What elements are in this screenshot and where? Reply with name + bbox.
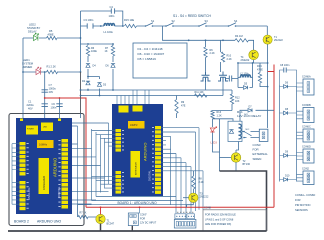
diode D6 (111, 64, 115, 68)
transistor Q1 (201, 72, 211, 82)
reed switch S3 (198, 25, 200, 27)
wire CON7 feed (138, 207, 139, 213)
svg-text:FOR: FOR (253, 147, 259, 151)
diode D6 (284, 85, 288, 89)
svg-text:ATMEGA328: ATMEGA328 (43, 175, 46, 190)
svg-text:STAND BY: STAND BY (27, 26, 40, 30)
resistor R4 (235, 39, 249, 42)
svg-text:12V 1C/O RELAY: 12V 1C/O RELAY (237, 114, 261, 118)
wire main left vertical lower (80, 72, 82, 114)
svg-text:BOARD 2: BOARD 2 (14, 219, 29, 223)
wire board2 left stubs (12, 144, 20, 205)
resistor R11 (195, 94, 208, 97)
wire CON2 pins (297, 174, 304, 181)
svg-text:S3: S3 (205, 19, 209, 23)
wire nest between boards (72, 123, 116, 205)
relay diode (229, 130, 233, 134)
svg-text:SYSTEM: SYSTEM (22, 62, 34, 66)
node N (80, 89, 82, 91)
capacitor C7 (42, 90, 48, 92)
svg-text:2.2K: 2.2K (227, 58, 232, 61)
connector CON7 box (128, 213, 138, 226)
relay contacts (242, 132, 259, 138)
wire main top (81, 25, 268, 27)
wire T1emitter down (267, 87, 269, 128)
wire R9 stems (176, 96, 178, 119)
transistor T5 (96, 214, 105, 223)
node O (80, 95, 82, 97)
diode D7 flyback (248, 109, 252, 113)
node D (44, 71, 46, 73)
wire L2 row (238, 63, 253, 88)
arduino board2 body (16, 118, 72, 214)
svg-text:CON6C: CON6C (302, 126, 311, 129)
connector CON6C (303, 129, 314, 142)
svg-text:D6 - D10 = 1N4007: D6 - D10 = 1N4007 (138, 52, 165, 56)
wire D5 row (238, 87, 253, 89)
transistor T2 (231, 153, 241, 163)
svg-text:BC547: BC547 (107, 223, 115, 226)
inductor L1 (104, 24, 115, 26)
svg-text:R4 1M: R4 1M (235, 34, 243, 38)
inductor L2 (241, 75, 251, 78)
svg-text:40V: 40V (49, 90, 54, 94)
resistor R13 (211, 111, 214, 119)
diode D4 (86, 64, 90, 68)
diode D8 (284, 111, 288, 115)
wire y40 branch (163, 26, 254, 50)
relay RL1 box (228, 121, 242, 141)
wire R10 stem (220, 40, 222, 72)
wire T3 emitter (187, 202, 194, 207)
wire LED2 branch (23, 37, 81, 39)
svg-text:R5: R5 (49, 29, 53, 33)
resistor R3 (111, 46, 114, 57)
resistor R15 (125, 24, 137, 27)
node M (237, 62, 239, 64)
node H (122, 25, 124, 27)
wire D6 stems (112, 44, 114, 90)
red wire +12V left (45, 98, 86, 207)
LED3 (210, 127, 217, 132)
svg-text:R7 1K: R7 1K (80, 212, 87, 215)
wire Q1 drain down (205, 82, 207, 90)
connector CON8 header (174, 219, 196, 228)
node F (59, 97, 61, 99)
svg-text:D1 - D4 = 1N4148: D1 - D4 = 1N4148 (138, 47, 163, 51)
red wire bottom (86, 206, 274, 208)
connector CON6D (303, 149, 314, 163)
node A (80, 37, 82, 39)
svg-text:CON6A~ CON6D: CON6A~ CON6D (295, 193, 315, 197)
svg-text:C8 100n: C8 100n (280, 64, 290, 67)
svg-text:DIGITAL: DIGITAL (148, 170, 152, 181)
svg-text:S1 - S4 = REED SWITCH: S1 - S4 = REED SWITCH (173, 14, 211, 18)
svg-text:LED1: LED1 (23, 58, 30, 62)
connector CON2 (303, 171, 314, 185)
node J (188, 39, 190, 41)
diode D2 (86, 81, 90, 85)
svg-text:100n: 100n (51, 106, 57, 110)
wire main left vertical (80, 11, 82, 72)
relay coil (239, 124, 242, 139)
capacitor C5 (229, 76, 231, 82)
arduino board2 details (26, 126, 38, 135)
resistor R14 (258, 73, 261, 84)
svg-text:S2: S2 (172, 19, 176, 23)
svg-text:R11 10K: R11 10K (195, 91, 205, 94)
svg-text:2N2222: 2N2222 (200, 196, 209, 199)
svg-text:R1 2.2K: R1 2.2K (47, 65, 57, 69)
node P (267, 86, 269, 88)
svg-text:CON7: CON7 (140, 214, 147, 217)
connector CON6B (303, 108, 314, 123)
wire left vertical (22, 38, 24, 114)
reed switch S4 (228, 25, 230, 27)
resistor R5 (47, 36, 58, 39)
relay contact nodes (243, 131, 245, 133)
wire relay top (213, 119, 234, 121)
wire C4 branch (81, 11, 123, 26)
wire RD network top (81, 43, 114, 45)
diode D5 (244, 86, 248, 90)
LED2 stand-by (34, 33, 39, 41)
diode D3 (97, 83, 101, 87)
ground bus right (220, 171, 267, 231)
wire D10 row (280, 179, 297, 181)
node B (22, 71, 24, 73)
wire R6 stem (205, 40, 207, 72)
wire nest right of board1 (161, 128, 203, 213)
svg-text:FOR: FOR (140, 218, 145, 221)
svg-text:FOR: FOR (295, 198, 301, 202)
svg-text:16MHz: 16MHz (130, 124, 138, 127)
wire C6 vertical (59, 98, 61, 114)
capacitor C1 (42, 104, 48, 107)
wire D9 row (280, 155, 297, 157)
svg-text:DIGITAL: DIGITAL (57, 186, 61, 198)
svg-text:CON6B: CON6B (302, 104, 311, 107)
resistor R1 (47, 70, 58, 73)
connector CON7 pins (130, 215, 133, 218)
svg-text:FOR RADIO 32M MODULE: FOR RADIO 32M MODULE (205, 214, 236, 217)
wire T2 emitter (235, 162, 237, 171)
svg-text:D10: D10 (285, 174, 290, 177)
radio note box (203, 210, 267, 231)
wire relay supply (240, 110, 274, 121)
wire LED3 down (213, 133, 220, 153)
connector CON6A (303, 79, 314, 95)
resistor R7 (78, 215, 88, 218)
capacitor C8 (284, 68, 286, 73)
svg-text:CON6D: CON6D (302, 146, 311, 149)
svg-text:S4: S4 (234, 19, 238, 23)
wire R12 stem (231, 90, 233, 94)
wire T5 collector (100, 207, 102, 214)
wire LED1 branch (23, 71, 81, 73)
svg-text:100E: 100E (91, 50, 97, 53)
svg-text:C1: C1 (28, 100, 32, 104)
svg-text:L2 100u: L2 100u (240, 73, 250, 76)
svg-text:ANALOG: ANALOG (27, 187, 31, 200)
wire CON7 ground (131, 226, 133, 231)
svg-text:DELAY: DELAY (28, 29, 37, 33)
svg-text:S1: S1 (151, 19, 155, 23)
connector CON8 small boxes (175, 214, 186, 219)
wire C7-C1 vertical (44, 72, 46, 114)
wire C5 stubs (226, 78, 239, 80)
connector CON3 (259, 129, 268, 141)
capacitor C3 (87, 23, 93, 28)
wire to T1 collector (266, 26, 268, 35)
node R (87, 76, 89, 78)
wire second diode row (88, 77, 100, 96)
svg-text:ARMED: ARMED (23, 65, 33, 69)
svg-text:PIR MOTION: PIR MOTION (295, 203, 311, 207)
wire R13 stems (213, 104, 233, 127)
wire CON6A pins (297, 83, 304, 91)
wire D6 row (280, 86, 297, 88)
wire right rails (280, 85, 297, 182)
svg-text:( PINS 1 and 5 OF CON8: ( PINS 1 and 5 OF CON8 (205, 218, 234, 221)
svg-text:R15 10E: R15 10E (124, 18, 134, 22)
wire T2 base (220, 157, 232, 159)
wire D4 stems (87, 56, 89, 77)
svg-text:12V DC INPUT: 12V DC INPUT (140, 222, 157, 225)
node C (80, 71, 82, 73)
svg-text:D5 = 1N5819: D5 = 1N5819 (138, 57, 157, 61)
wire H2 (81, 95, 224, 97)
svg-text:EXTERNAL: EXTERNAL (253, 152, 269, 156)
wire T5 emitter ground (100, 224, 102, 231)
wire T3 collector (193, 189, 195, 193)
svg-text:C7: C7 (49, 83, 53, 87)
svg-text:1000u: 1000u (49, 87, 57, 91)
svg-text:CON6A: CON6A (302, 76, 311, 79)
svg-text:LED3: LED3 (211, 142, 218, 145)
resistor R8 (192, 176, 195, 189)
arduino board1 body (112, 104, 163, 196)
svg-text:1.2K: 1.2K (217, 115, 222, 118)
wire R14 stems (260, 63, 268, 87)
svg-text:499E: 499E (48, 33, 54, 37)
wire R7 left (78, 205, 97, 217)
resistor R2 (86, 46, 89, 57)
svg-text:LED2: LED2 (29, 23, 36, 27)
svg-text:2.2K: 2.2K (210, 52, 215, 55)
node K (205, 39, 207, 41)
svg-text:2200u: 2200u (27, 103, 35, 107)
svg-text:2N2222: 2N2222 (274, 39, 283, 42)
ground bus bottom (8, 230, 267, 232)
svg-text:40V: 40V (28, 106, 33, 110)
svg-text:ATMEGA328: ATMEGA328 (135, 161, 138, 175)
diode D9 (284, 154, 288, 158)
svg-text:CON8: CON8 (204, 207, 212, 210)
arduino board1 details (119, 106, 129, 113)
svg-text:C6: C6 (52, 102, 56, 106)
svg-text:N/C: N/C (246, 129, 250, 131)
resistor R9 (175, 100, 178, 114)
note box components (133, 43, 187, 78)
label CON8 pins (177, 211, 193, 213)
resistor R12 (230, 94, 233, 104)
node G (100, 25, 102, 27)
svg-text:N/O: N/O (244, 114, 248, 116)
red wire right vertical (268, 65, 274, 208)
svg-text:CON3: CON3 (253, 143, 261, 147)
wire long vertical (219, 119, 221, 171)
wire CON6B pins (297, 111, 304, 119)
node L (222, 39, 224, 41)
node E (44, 97, 46, 99)
wire C8 loop (280, 70, 297, 86)
wire R8 top (193, 171, 195, 176)
wire top feeds board2 (23, 114, 81, 119)
transistor Q2 (218, 72, 228, 83)
wire CON6C pins (297, 132, 304, 139)
LED1 system armed (36, 67, 41, 75)
svg-text:47E: 47E (181, 104, 186, 107)
svg-text:SIREN: SIREN (253, 157, 262, 161)
reed switch S2 (165, 25, 167, 27)
wire H1 (81, 89, 233, 91)
board2 enclosure box (9, 114, 84, 226)
svg-text:ARDUINO: ARDUINO (53, 157, 58, 177)
node Q (87, 43, 89, 45)
wire nest bottoms (78, 197, 187, 205)
svg-text:C3 100n: C3 100n (84, 18, 94, 22)
svg-text:100n: 100n (109, 14, 115, 18)
node CON7 red tap (139, 206, 141, 208)
wire T4 emitter (238, 60, 268, 63)
diode D10 (284, 178, 288, 182)
node T5 red tap (100, 206, 102, 208)
wire D8 row (280, 112, 297, 114)
svg-text:CON2: CON2 (302, 168, 310, 171)
transistor T1 (263, 35, 272, 44)
wire board1 top stubs (117, 90, 149, 104)
svg-text:ARDUINO: ARDUINO (143, 143, 148, 161)
svg-text:ARDUINO UNO: ARDUINO UNO (37, 219, 61, 223)
svg-text:1K: 1K (105, 50, 108, 53)
svg-text:ARE FOR POWER RX): ARE FOR POWER RX) (205, 223, 231, 226)
wire CON6D pins (297, 153, 304, 160)
connector CON8 dots (176, 216, 177, 217)
reed switch S1 (145, 25, 147, 27)
resistor R6 (204, 47, 207, 58)
svg-text:SENSORS: SENSORS (295, 208, 308, 212)
wire relay bottom (236, 142, 239, 153)
svg-text:10K: 10K (235, 100, 240, 103)
svg-text:POWER: POWER (27, 129, 34, 131)
wire Q2 drain down (222, 82, 224, 96)
capacitor C4 (111, 8, 114, 13)
svg-text:BT136: BT136 (243, 163, 251, 166)
svg-text:2N2222: 2N2222 (241, 59, 250, 62)
svg-text:L1 100u: L1 100u (104, 30, 114, 34)
transistor T4 (249, 50, 259, 60)
svg-text:2.2K: 2.2K (199, 181, 204, 184)
svg-text:C4: C4 (110, 5, 114, 9)
resistor R10 (221, 52, 224, 62)
svg-text:BOARD 1 : ARDUINO UNO: BOARD 1 : ARDUINO UNO (118, 201, 158, 205)
wire T3 base (183, 197, 189, 199)
wire T1 emitter (267, 44, 269, 63)
transistor T3 (189, 193, 198, 202)
svg-text:16MHz: 16MHz (39, 143, 48, 147)
capacitor C6 (56, 104, 62, 107)
node I (267, 62, 269, 64)
